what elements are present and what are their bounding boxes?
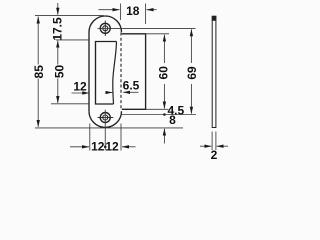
screw hole top xyxy=(100,21,110,36)
dimension 69 xyxy=(190,29,192,113)
dimension 2 (side view thickness) xyxy=(211,132,213,151)
svg-text:12: 12 xyxy=(91,140,105,154)
svg-text:8: 8 xyxy=(169,113,176,127)
dimension 60 xyxy=(163,35,165,109)
svg-text:50: 50 xyxy=(53,65,67,79)
dimension 17.5 xyxy=(57,3,59,15)
side view bent lip cap xyxy=(212,16,216,21)
centerline through top hole extended right (69 top reference) xyxy=(98,27,196,29)
extension line lip top right xyxy=(146,33,169,35)
svg-text:12: 12 xyxy=(73,80,87,94)
latch cutout (rectangular opening with curved right edge) xyxy=(96,42,117,105)
svg-text:60: 60 xyxy=(157,66,171,80)
extension line cutout top left xyxy=(56,39,89,41)
svg-text:2: 2 xyxy=(211,148,218,160)
svg-text:12: 12 xyxy=(105,140,119,154)
dimension 85 xyxy=(37,17,39,127)
dimension 12 12 (bottom) xyxy=(70,146,89,148)
extension line plate bottom (long, shared 85 / 8) xyxy=(35,127,183,129)
lip tab (bent tongue, projected) xyxy=(122,34,146,110)
extension line latch mid (4.5 / 69 bottom reference) xyxy=(121,114,196,116)
svg-text:6.5: 6.5 xyxy=(123,79,140,93)
svg-text:85: 85 xyxy=(32,65,46,79)
svg-text:18: 18 xyxy=(126,4,140,18)
dimension 18 xyxy=(99,9,120,11)
extension line cutout bottom left xyxy=(51,103,89,105)
svg-text:69: 69 xyxy=(185,66,199,80)
dimension 4.5 (dot reference) xyxy=(163,113,166,116)
side view thin plate xyxy=(212,16,216,127)
extension line 18 left (bend line up) xyxy=(120,4,122,21)
svg-text:17.5: 17.5 xyxy=(50,17,64,41)
extension line lip bottom right xyxy=(146,108,169,110)
plate outline (stadium body, front view) xyxy=(89,16,122,127)
bottom extension lines xyxy=(89,124,91,151)
dimension 50 xyxy=(57,41,59,103)
extension line plate top xyxy=(35,15,104,17)
extension line 18 right (lip edge up) xyxy=(145,4,147,25)
screw hole bottom xyxy=(98,113,114,123)
bend line (dashed right edge of plate) xyxy=(120,33,122,111)
